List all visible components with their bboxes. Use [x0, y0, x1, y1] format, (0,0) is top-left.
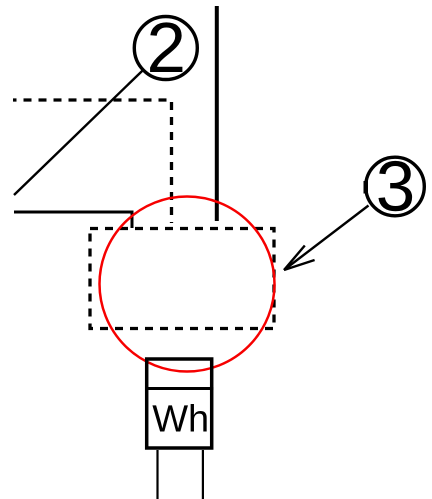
svg-text:2: 2 — [147, 9, 187, 88]
wire: long vertical supply line — [215, 6, 219, 221]
leader line from balloon 2 — [14, 71, 143, 195]
svg-text:Wh: Wh — [152, 399, 209, 441]
callout balloon 2 — [134, 9, 197, 88]
wire: meter right lead — [202, 450, 204, 499]
highlight circle (red) — [100, 197, 275, 372]
artifact mark left of balloon 3 — [364, 181, 369, 194]
junction box (dashed outline) — [90, 229, 274, 329]
wire: solid horizontal branch with drop into junction box — [14, 212, 132, 228]
dashed wire: horizontal run then down to junction box — [13, 100, 172, 223]
wire: meter left lead — [156, 450, 158, 499]
callout balloon 3 — [366, 148, 425, 227]
leader arrow from balloon 3 — [284, 206, 369, 271]
svg-text:3: 3 — [376, 148, 416, 227]
watt-hour meter Wh — [145, 359, 214, 448]
